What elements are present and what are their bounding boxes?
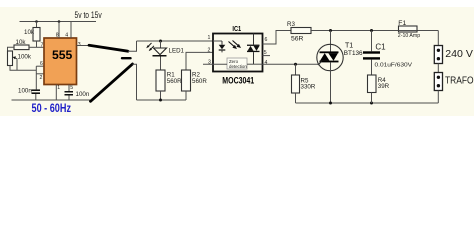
resistor R5 xyxy=(292,75,300,93)
node: rail junction at pin 8 xyxy=(58,20,61,23)
svg-text:IC1: IC1 xyxy=(232,26,241,33)
wire: triac MT2 down xyxy=(330,62,332,103)
wire: R5 top lead xyxy=(295,64,297,75)
svg-text:6: 6 xyxy=(265,37,268,43)
svg-text:TRAFO: TRAFO xyxy=(445,76,474,87)
svg-text:330R: 330R xyxy=(301,83,316,90)
svg-text:7: 7 xyxy=(41,42,44,48)
wire: 10k left lead xyxy=(8,47,15,51)
svg-text:560R: 560R xyxy=(167,78,182,85)
svg-text:240 V: 240 V xyxy=(445,49,473,60)
svg-text:50 - 60Hz: 50 - 60Hz xyxy=(32,101,72,115)
node: rail junction at R-10k top xyxy=(35,20,38,23)
svg-text:5: 5 xyxy=(70,85,73,91)
wire: C1 to R4 xyxy=(371,60,373,75)
svg-text:560R: 560R xyxy=(192,78,207,85)
node: snubber top junction xyxy=(370,29,373,32)
wire: pin 3 output xyxy=(77,45,90,47)
wire: pin 4 to rail xyxy=(70,22,72,39)
wire: pin6 to R3 xyxy=(263,31,292,45)
wire: pin 2 stub xyxy=(36,73,44,75)
capacitor 100n (timing) xyxy=(32,89,41,91)
LED LED1 xyxy=(160,41,162,48)
wire: 10k bottom to pin7 node xyxy=(36,41,38,47)
svg-text:detection: detection xyxy=(229,64,247,69)
cable conductor (bottom) xyxy=(91,64,133,101)
wire: pin7 node to 555 xyxy=(29,46,44,48)
svg-text:8: 8 xyxy=(56,33,59,39)
wire: pin 8 to rail xyxy=(58,22,60,39)
wire: TRAFO to bottom rail xyxy=(437,91,439,104)
node: snubber bottom junction xyxy=(370,102,373,105)
wire: pin 5 lead xyxy=(68,85,70,92)
wire: pins 2/6 vertical xyxy=(35,66,37,89)
svg-text:BT136: BT136 xyxy=(344,50,363,57)
wire: pin 3 stub xyxy=(203,63,227,65)
wire: ground rail xyxy=(12,99,91,101)
node: R5 junction xyxy=(294,63,297,66)
svg-text:56R: 56R xyxy=(291,35,304,42)
triac T1 circle xyxy=(317,44,343,70)
wire: R4 bottom lead xyxy=(371,93,373,104)
connector TRAFO xyxy=(434,73,442,91)
svg-text:2: 2 xyxy=(40,75,43,81)
resistor R4 xyxy=(368,75,377,93)
svg-text:10k: 10k xyxy=(24,29,35,36)
wire: +V top rail xyxy=(20,21,97,23)
triac gate lead xyxy=(318,62,322,66)
svg-text:4: 4 xyxy=(265,60,268,66)
svg-text:2-10 Amp: 2-10 Amp xyxy=(398,33,420,39)
wire: zero block to pin 4 xyxy=(247,63,263,65)
wire: junction to triac xyxy=(330,31,332,52)
svg-text:5v to 15v: 5v to 15v xyxy=(75,10,103,20)
wire: cable bottom to return line xyxy=(133,64,137,100)
wire: return rail xyxy=(137,99,187,101)
wire: pin 1 to ground xyxy=(55,85,57,101)
svg-text:C1: C1 xyxy=(375,43,386,52)
svg-text:100n: 100n xyxy=(76,91,90,98)
wire: IC1 pin2 to R2 xyxy=(186,52,213,70)
wire: cap to ground rail xyxy=(35,94,37,100)
wire: mains bottom rail xyxy=(296,102,439,104)
wire: pin4 / gate line xyxy=(263,63,319,65)
svg-text:1: 1 xyxy=(57,85,60,91)
wire: R1 to return xyxy=(160,91,162,100)
node: return junction xyxy=(159,99,162,102)
wire: cable top to LED line xyxy=(128,41,137,51)
internal photo-triac xyxy=(253,34,255,45)
node: triac bottom junction xyxy=(329,102,332,105)
pot wiper arrow xyxy=(14,57,17,58)
wire: pin 5 stub xyxy=(263,55,271,57)
wire: wiper lead xyxy=(16,59,18,71)
cable break dash xyxy=(122,57,131,59)
svg-text:4: 4 xyxy=(65,33,68,39)
node: LED1 junction xyxy=(159,40,162,43)
svg-text:39R: 39R xyxy=(378,83,390,90)
wire: rail corner down to 240V connector xyxy=(437,31,439,46)
triac T1 symbol xyxy=(320,51,339,53)
wire: pin5 cap to ground xyxy=(68,96,70,101)
wire: rail to vertical 10k xyxy=(36,22,38,28)
svg-text:100n: 100n xyxy=(18,88,32,95)
svg-text:100k: 100k xyxy=(18,53,32,60)
cable conductor (top) xyxy=(89,45,128,51)
IC 555 xyxy=(44,38,77,85)
wire: pin 6 stub xyxy=(36,65,44,67)
svg-text:T1: T1 xyxy=(345,43,353,50)
resistor R2 xyxy=(182,70,191,91)
resistor 10k (horizontal) xyxy=(14,45,29,50)
wire: pot bottom lead xyxy=(10,66,36,71)
svg-text:0.01uF/630V: 0.01uF/630V xyxy=(375,62,413,68)
capacitor 100n (pin5) xyxy=(65,91,74,93)
LED1 light arrows xyxy=(150,46,154,50)
wire: anode line to IC1 pin1 xyxy=(137,40,214,42)
potentiometer 100k xyxy=(8,51,13,66)
svg-text:6: 6 xyxy=(40,61,43,67)
paper background xyxy=(0,0,474,116)
svg-text:10k: 10k xyxy=(16,39,27,46)
internal light arrows xyxy=(229,42,235,47)
resistor R1 xyxy=(156,70,165,91)
zero-crossing block xyxy=(227,58,247,69)
svg-text:LED1: LED1 xyxy=(169,47,185,54)
wire: C1 top lead xyxy=(371,31,373,52)
resistor 10k (vertical) xyxy=(33,28,40,42)
internal LED of IC1 xyxy=(213,40,222,42)
wire: R5 bottom lead xyxy=(295,93,297,103)
node: triac top junction xyxy=(329,29,332,32)
svg-text:MOC3041: MOC3041 xyxy=(222,75,254,85)
wire: mains top rail xyxy=(311,30,438,32)
svg-text:2: 2 xyxy=(208,47,211,53)
opto-coupler IC1 box xyxy=(213,34,263,72)
wire: between connectors xyxy=(437,64,439,73)
wire: R2 to return xyxy=(185,91,187,100)
svg-text:1: 1 xyxy=(208,35,211,41)
svg-text:555: 555 xyxy=(52,48,73,62)
connector 240V xyxy=(434,46,442,64)
